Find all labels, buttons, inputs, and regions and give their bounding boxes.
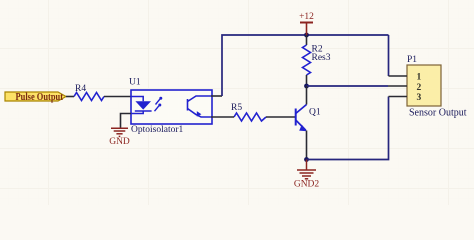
wire R5 to Q1 base bbox=[266, 116, 295, 118]
svg-text:P1: P1 bbox=[407, 55, 417, 65]
phototransistor inside U1 bbox=[188, 96, 212, 117]
svg-text:Sensor Output: Sensor Output bbox=[409, 108, 467, 119]
connector P1 bbox=[407, 55, 467, 119]
LED inside U1 bbox=[131, 97, 152, 114]
svg-text:+12: +12 bbox=[299, 12, 314, 22]
LED light arrows bbox=[155, 97, 163, 111]
resistor R5 bbox=[231, 103, 266, 121]
svg-text:U1: U1 bbox=[129, 78, 141, 88]
svg-text:R5: R5 bbox=[231, 103, 242, 113]
transistor Q1 bbox=[296, 105, 307, 132]
port Pulse Output bbox=[5, 92, 66, 103]
wire emitter to P1 pin3 bbox=[307, 97, 389, 160]
svg-text:Res3: Res3 bbox=[312, 53, 331, 63]
pin Q1 collector bbox=[306, 86, 308, 105]
wire R4 to U1 bbox=[104, 96, 131, 98]
optoisolator U1 body bbox=[129, 78, 212, 136]
resistor R2 Res3 bbox=[303, 35, 331, 86]
pin U1 collector bbox=[211, 95, 222, 97]
svg-text:R4: R4 bbox=[75, 84, 86, 94]
wire R2 bottom to P1 pin2 bbox=[307, 85, 389, 87]
wire rail down to P1 pin1 bbox=[388, 35, 390, 76]
resistor R4 bbox=[74, 84, 104, 101]
wire U1 emitter to R5 bbox=[211, 116, 234, 118]
svg-text:2: 2 bbox=[417, 83, 422, 93]
wire collector up and top rail bbox=[222, 35, 389, 96]
wire port to R4 bbox=[66, 96, 74, 98]
svg-text:Q1: Q1 bbox=[309, 108, 321, 118]
pin P1.3 bbox=[389, 96, 408, 98]
svg-text:GND2: GND2 bbox=[294, 180, 320, 190]
svg-text:1: 1 bbox=[417, 73, 422, 83]
power +12 bbox=[299, 12, 314, 35]
svg-text:3: 3 bbox=[417, 93, 422, 103]
pin U1 cathode to GND bbox=[121, 114, 132, 128]
pin P1.2 bbox=[388, 85, 407, 87]
svg-text:Optoisolator1: Optoisolator1 bbox=[131, 125, 183, 135]
node junction emitter bbox=[304, 157, 309, 162]
svg-text:Pulse Output: Pulse Output bbox=[16, 92, 64, 103]
ground GND2 bbox=[294, 160, 320, 190]
node junction R2 bottom bbox=[304, 84, 309, 89]
ground GND bbox=[109, 128, 130, 147]
node junction +12 on rail bbox=[304, 33, 309, 38]
svg-text:GND: GND bbox=[109, 137, 130, 147]
pin P1.1 bbox=[389, 75, 408, 77]
pin Q1 emitter bbox=[306, 131, 308, 160]
